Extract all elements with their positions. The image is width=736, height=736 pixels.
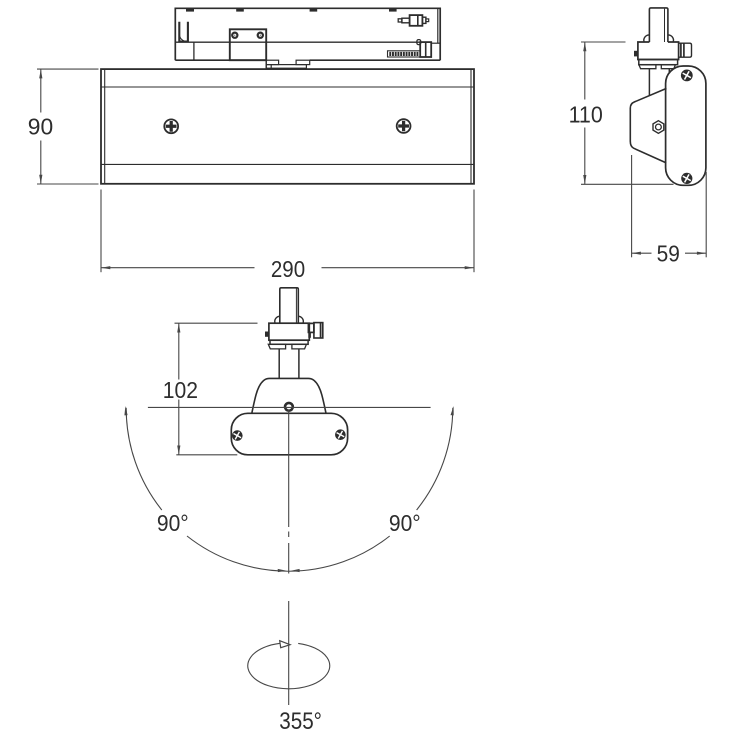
ROTATION VIEW — [231, 288, 347, 455]
plate screw left — [231, 32, 238, 39]
pivot screw — [285, 403, 293, 411]
mid head screw left — [232, 430, 243, 441]
mid stem shoulder bumps — [275, 316, 304, 323]
svg-text:102: 102 — [163, 377, 198, 403]
mid flange feet — [268, 344, 306, 349]
adapter right latch clip — [417, 40, 440, 57]
side stem upper — [649, 8, 668, 42]
side block left nub — [634, 51, 638, 57]
rotation ellipse 355 — [248, 641, 330, 689]
mid adapter block — [269, 323, 309, 340]
dimension 110 — [581, 42, 674, 184]
side adapter block — [638, 42, 679, 60]
adapter top contact tabs — [186, 9, 397, 12]
track adapter outline — [175, 8, 440, 60]
svg-text:290: 290 — [271, 256, 305, 282]
side stem lower — [649, 69, 669, 96]
adapter inner divider — [176, 42, 420, 60]
adapter left L-bracket — [179, 22, 188, 42]
dimension 102 — [175, 323, 258, 455]
svg-text:59: 59 — [657, 241, 680, 267]
mid head screw right — [335, 429, 346, 440]
adapter foot tabs — [266, 60, 310, 68]
svg-text:355°: 355° — [279, 708, 322, 735]
mid stem upper — [280, 288, 299, 323]
side cover hex nut — [653, 121, 664, 134]
mid lamp head — [231, 413, 347, 455]
vertical centerline — [288, 410, 290, 705]
dimension 59 — [632, 155, 707, 257]
side head screw bottom — [681, 173, 692, 184]
svg-text:90°: 90° — [157, 510, 189, 536]
side flange feet — [639, 65, 676, 69]
dimension 90 — [37, 69, 99, 184]
adapter ribbed strip — [388, 51, 421, 57]
mid yoke bell — [252, 378, 326, 413]
body screw left — [164, 119, 178, 133]
adapter plug connector icon — [398, 15, 428, 26]
side block right tab — [679, 43, 692, 57]
plate screw right — [257, 32, 264, 39]
main body outline — [101, 69, 474, 184]
svg-text:90: 90 — [28, 114, 53, 140]
side front cover — [630, 88, 666, 162]
SIDE VIEW — [630, 8, 706, 185]
side flange — [639, 60, 678, 65]
mid block right tab — [308, 323, 323, 338]
side head screw top — [681, 70, 693, 82]
svg-text:90°: 90° — [389, 510, 421, 536]
horizontal centerline — [148, 406, 431, 408]
side lamp head pill — [666, 66, 706, 185]
FRONT VIEW — [101, 8, 474, 184]
adapter mounting plate with screws — [230, 29, 266, 68]
side stem shoulder bumps — [644, 35, 674, 42]
dimension 290 — [101, 190, 474, 273]
rotation arc 180 — [124, 406, 453, 572]
mid stem lower — [279, 349, 299, 379]
body screw right — [397, 119, 411, 133]
svg-text:110: 110 — [569, 101, 603, 127]
mid flange — [270, 340, 308, 344]
mid block left nub — [265, 332, 269, 337]
